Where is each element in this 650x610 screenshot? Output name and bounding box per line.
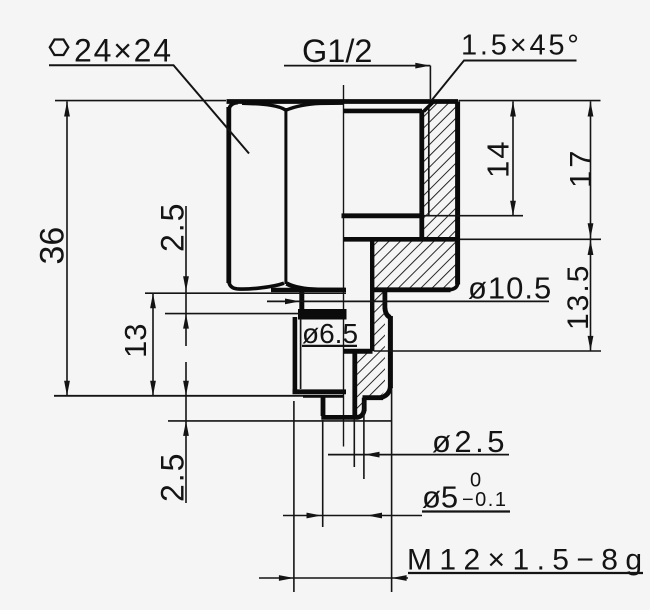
M12 crest wall right (section) xyxy=(388,316,393,388)
bore bottom line (thick part) xyxy=(344,237,461,242)
dim 14 arrow up xyxy=(510,102,516,117)
dim 2.5 lower vertical + arrows xyxy=(185,362,187,503)
1.5x45 underline + leader xyxy=(432,61,577,101)
bore bottom extension line (thin) xyxy=(460,238,601,240)
dia10.5 dimension line xyxy=(267,300,549,302)
svg-text:G1/2: G1/2 xyxy=(302,33,372,69)
svg-text:ø6.5: ø6.5 xyxy=(302,318,358,349)
svg-text:2.5: 2.5 xyxy=(155,452,191,502)
dim 36 arrow up xyxy=(64,102,70,117)
shoulder line right xyxy=(372,287,451,292)
svg-text:14: 14 xyxy=(481,140,516,178)
dia2.5 arrow left xyxy=(365,452,380,458)
G1/2 bore wall (minor dia) xyxy=(419,110,424,241)
dim 17 arrow down xyxy=(588,223,594,238)
G1/2 extension line xyxy=(429,66,431,99)
hexagon symbol xyxy=(50,40,69,56)
thread start flare right xyxy=(385,308,391,318)
tip end extension line xyxy=(168,420,391,422)
svg-text:M12×1.5−8g: M12×1.5−8g xyxy=(407,544,649,577)
M12 root thin line left xyxy=(300,319,302,390)
hatched section stem lower right xyxy=(355,290,385,417)
dia5 left extension vertical xyxy=(322,420,324,527)
hex bottom-right corner arc xyxy=(450,284,458,290)
dim 2.5 lower arrow up xyxy=(183,421,189,436)
hex bottom left-face arc xyxy=(238,283,285,289)
svg-text:13.5: 13.5 xyxy=(562,264,595,330)
dia2.5 extension vertical xyxy=(353,419,355,467)
dim 13 arrow down xyxy=(150,381,156,396)
hex bottom-left corner arc xyxy=(229,282,238,289)
dia5 arrow left xyxy=(367,513,382,519)
dia5 tip left edge xyxy=(321,398,326,417)
dia10.5 arrow right xyxy=(285,299,300,305)
top extension right xyxy=(459,100,601,102)
svg-text:ø5: ø5 xyxy=(422,480,458,515)
M12 dimension line xyxy=(259,577,408,579)
dim 36 vertical xyxy=(66,102,68,396)
thread end line xyxy=(342,213,423,218)
M12 right extension vertical xyxy=(391,390,393,592)
dia6.5 bore wall xyxy=(370,239,374,351)
dim 2.5 upper arrow down xyxy=(183,276,189,291)
M12 bottom silhouette line left xyxy=(293,389,347,394)
dia5 tip right wall (section) xyxy=(362,398,367,411)
hatched section wall upper right xyxy=(372,102,458,290)
M12 bottom face right (section) xyxy=(363,395,384,400)
step top line left xyxy=(271,288,346,292)
dia10.5 step left edge xyxy=(299,290,304,311)
dia10.5 step right wall (section) xyxy=(382,290,387,309)
dim 36 arrow down xyxy=(64,381,70,396)
dim 13 arrow up xyxy=(150,293,156,308)
24x24 underline + leader xyxy=(49,65,249,153)
tip bottom line xyxy=(321,410,364,417)
svg-text:24×24: 24×24 xyxy=(74,33,173,69)
M12 left extension vertical xyxy=(293,401,295,592)
dia5 dimension line xyxy=(283,515,422,517)
groove bottom extension line xyxy=(165,313,300,315)
relief groove black blob xyxy=(298,309,347,320)
hex face corner line xyxy=(284,108,287,284)
M12 crest silhouette left xyxy=(293,317,298,392)
G1/2 dimension line xyxy=(284,65,430,67)
hex top-left corner arc xyxy=(229,103,238,110)
hex left edge xyxy=(226,107,231,283)
thread end extension line xyxy=(424,215,523,217)
dim 17 / 13.5 vertical xyxy=(590,102,592,351)
M12 end face extension line xyxy=(54,395,344,397)
hex top middle-face chamfer arc xyxy=(286,103,344,110)
svg-text:2.5: 2.5 xyxy=(155,202,191,252)
hex bottom middle-face arc and bottom line xyxy=(287,284,346,290)
M12 runout corner bottom right xyxy=(381,387,391,398)
M12 arrow right xyxy=(279,575,294,581)
dia6.5 underline xyxy=(302,345,357,347)
G1/2 thread crest thin line xyxy=(428,107,430,216)
dim 14 vertical xyxy=(512,102,514,216)
svg-text:36: 36 xyxy=(34,227,72,265)
svg-text:ø10.5: ø10.5 xyxy=(468,271,552,306)
dim 14 arrow down xyxy=(510,201,516,216)
M12 arrow left xyxy=(392,575,407,581)
bore mouth chamfer 1.5x45 xyxy=(424,102,434,112)
dia5 arrow right xyxy=(307,513,322,519)
dia6.5 bore bottom xyxy=(344,349,373,354)
dim 13.5 arrow up xyxy=(588,240,594,255)
bore mouth edge line xyxy=(344,109,423,114)
dim 2.5 upper arrow up xyxy=(183,314,189,329)
G1/2 arrow right xyxy=(415,63,430,69)
svg-text:−0.1: −0.1 xyxy=(462,489,507,511)
svg-text:1.5×45°: 1.5×45° xyxy=(461,30,582,62)
svg-text:13: 13 xyxy=(118,324,153,358)
hex bottom extension line xyxy=(145,292,346,294)
dim 2.5 upper vertical + arrows xyxy=(185,206,187,346)
36 dim extension top xyxy=(55,100,226,102)
top face line xyxy=(227,99,459,104)
dia5 right extension vertical xyxy=(363,401,365,479)
dia6.5 bottom extension line xyxy=(374,350,601,352)
hex top left-face chamfer arc xyxy=(242,103,286,110)
centerline xyxy=(343,85,345,447)
dim 13 vertical xyxy=(152,293,154,396)
dia2.5 hole wall xyxy=(352,351,357,417)
dim 17 arrow up xyxy=(588,102,594,117)
dim 13.5 arrow down xyxy=(588,336,594,351)
dia2.5 dimension line xyxy=(328,454,509,456)
right outer wall xyxy=(455,102,460,285)
svg-text:17: 17 xyxy=(563,148,598,188)
dim 2.5 lower arrow down xyxy=(183,381,189,396)
M12 end chamfer edge line xyxy=(303,395,344,398)
